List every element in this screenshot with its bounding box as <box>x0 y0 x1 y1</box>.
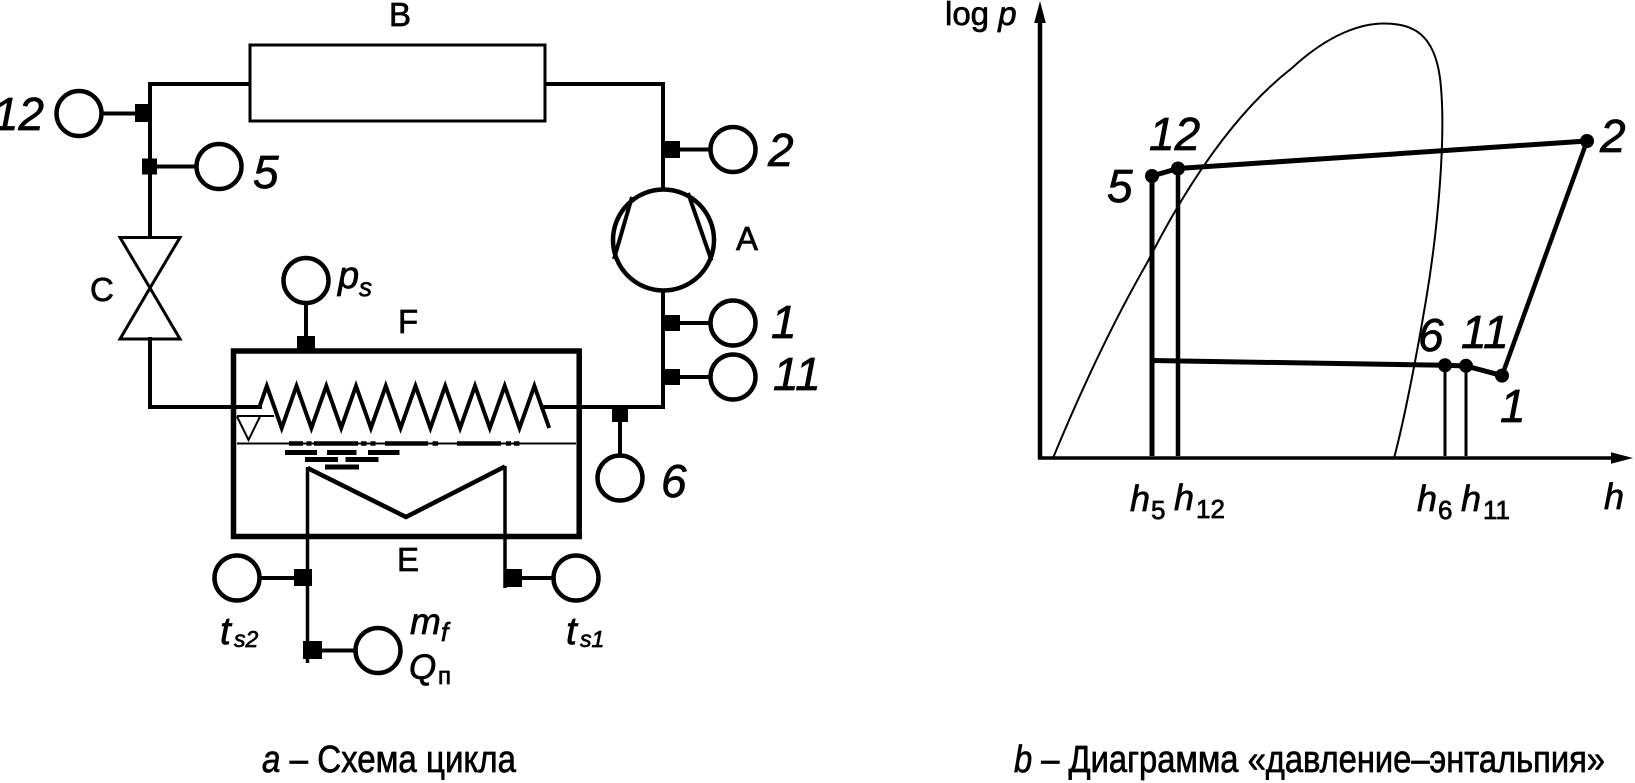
svg-text:6: 6 <box>1438 495 1452 525</box>
svg-text:E: E <box>397 541 419 578</box>
svg-text:11: 11 <box>1483 495 1510 525</box>
svg-text:11: 11 <box>773 348 821 400</box>
svg-text:s1: s1 <box>580 626 604 652</box>
svg-text:a – Схема цикла: a – Схема цикла <box>262 739 517 781</box>
svg-text:h: h <box>1604 476 1624 517</box>
svg-text:11: 11 <box>1461 306 1509 358</box>
svg-text:12: 12 <box>1196 494 1225 524</box>
svg-text:h: h <box>1417 478 1437 519</box>
svg-text:m: m <box>410 601 441 642</box>
svg-text:log p: log p <box>945 0 1017 32</box>
svg-text:5: 5 <box>1107 160 1133 212</box>
svg-text:5: 5 <box>1151 495 1165 525</box>
svg-text:F: F <box>398 303 418 340</box>
svg-text:5: 5 <box>253 146 279 198</box>
svg-text:2: 2 <box>767 124 794 176</box>
svg-text:p: p <box>337 255 359 297</box>
svg-text:s: s <box>359 272 372 302</box>
svg-text:s2: s2 <box>234 626 259 652</box>
svg-text:A: A <box>736 220 758 257</box>
svg-text:h: h <box>1130 478 1150 519</box>
svg-text:h: h <box>1174 477 1194 518</box>
svg-text:b – Диаграмма «давление–энталь: b – Диаграмма «давление–энтальпия» <box>1014 739 1605 781</box>
svg-text:C: C <box>90 271 114 308</box>
svg-text:п: п <box>438 663 451 690</box>
svg-text:6: 6 <box>661 455 687 507</box>
svg-text:6: 6 <box>1418 309 1444 361</box>
svg-text:h: h <box>1461 478 1481 519</box>
svg-text:1: 1 <box>771 296 797 348</box>
svg-text:B: B <box>389 0 411 33</box>
svg-text:12: 12 <box>0 88 44 140</box>
svg-text:2: 2 <box>1599 110 1626 162</box>
svg-text:1: 1 <box>1500 380 1526 432</box>
svg-text:12: 12 <box>1149 108 1200 160</box>
svg-text:Q: Q <box>409 648 436 687</box>
